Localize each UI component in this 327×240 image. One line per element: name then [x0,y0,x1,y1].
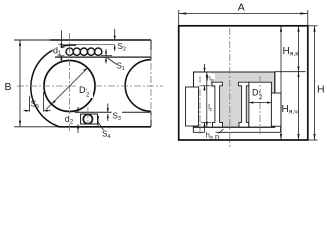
svg-text:S2: S2 [118,42,126,53]
svg-text:A: A [238,1,245,13]
svg-text:H: H [317,84,325,96]
svg-text:B: B [5,81,12,93]
svg-text:S5: S5 [31,100,39,111]
svg-text:S1: S1 [117,62,125,73]
svg-text:S4: S4 [102,130,110,141]
svg-text:n: n [215,132,219,141]
